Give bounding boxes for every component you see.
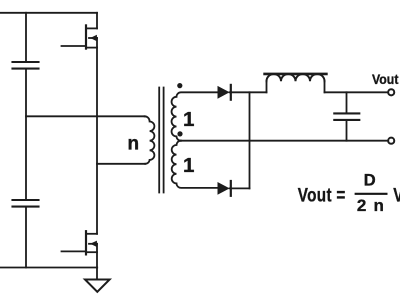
inductor L1 (265, 74, 327, 92)
capacitor C1 (13, 62, 39, 69)
wire D2 cathode to rectified node (230, 187, 250, 189)
wire left bus (input rail with capacitor gaps) (25, 13, 27, 268)
terminal Vout- (388, 138, 394, 144)
wire Q2 source to ground (96, 268, 98, 280)
diode D2 (218, 181, 231, 196)
ground (85, 280, 110, 292)
svg-text:D: D (364, 172, 376, 190)
wire capacitor midpoint to primary top (26, 115, 145, 117)
phase dot S1 (177, 83, 182, 88)
transistor Q2 (62, 231, 98, 267)
wire rectified node vertical (249, 92, 251, 188)
transformer T1 secondary winding S1 (172, 92, 218, 140)
wire primary bottom return (97, 163, 145, 165)
wire center tap to output return (181, 140, 388, 142)
svg-text:Vout =: Vout = (298, 184, 346, 206)
formula Vout = D/(2n) Vin (298, 172, 400, 216)
diode D1 (218, 85, 231, 100)
formula fraction bar (355, 193, 388, 195)
terminal Vout+ (388, 89, 394, 95)
capacitor C2 (13, 200, 39, 207)
wire inductor to output (325, 91, 389, 93)
transistor Q1 (62, 13, 98, 49)
phase dot S2 (177, 131, 182, 136)
wire top input rail (0, 12, 97, 14)
wire bottom input rail (0, 267, 97, 269)
transformer T1 secondary winding S2 (172, 141, 218, 188)
svg-text:1: 1 (183, 154, 194, 177)
transformer T1 core (159, 88, 163, 193)
wire switch-node vertical (Q1 source to Q2 drain) (96, 48, 98, 234)
wire D1 cathode to inductor (230, 91, 267, 93)
svg-text:Vout: Vout (372, 71, 399, 87)
svg-text:n: n (127, 133, 139, 154)
svg-text:1: 1 (183, 108, 194, 131)
transformer T1 primary winding (145, 116, 155, 164)
svg-text:2 n: 2 n (357, 196, 385, 215)
svg-text:Vin: Vin (393, 184, 400, 206)
capacitor C3 output (334, 92, 359, 140)
